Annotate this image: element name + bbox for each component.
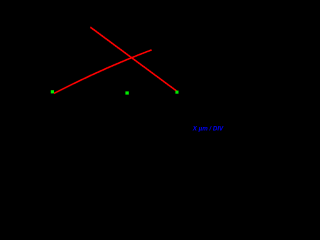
wire (54, 50, 152, 94)
node A (51, 90, 54, 93)
node B (125, 91, 128, 94)
wire (90, 27, 176, 91)
svg-text:X µm / DIV: X µm / DIV (192, 126, 224, 133)
node C (175, 91, 178, 94)
